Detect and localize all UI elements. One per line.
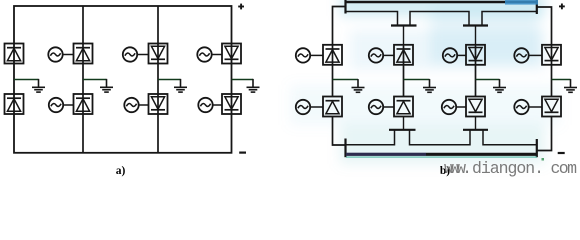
svg-text:a): a) bbox=[116, 165, 126, 177]
svg-text:www.diangon.com: www.diangon.com bbox=[444, 159, 577, 178]
